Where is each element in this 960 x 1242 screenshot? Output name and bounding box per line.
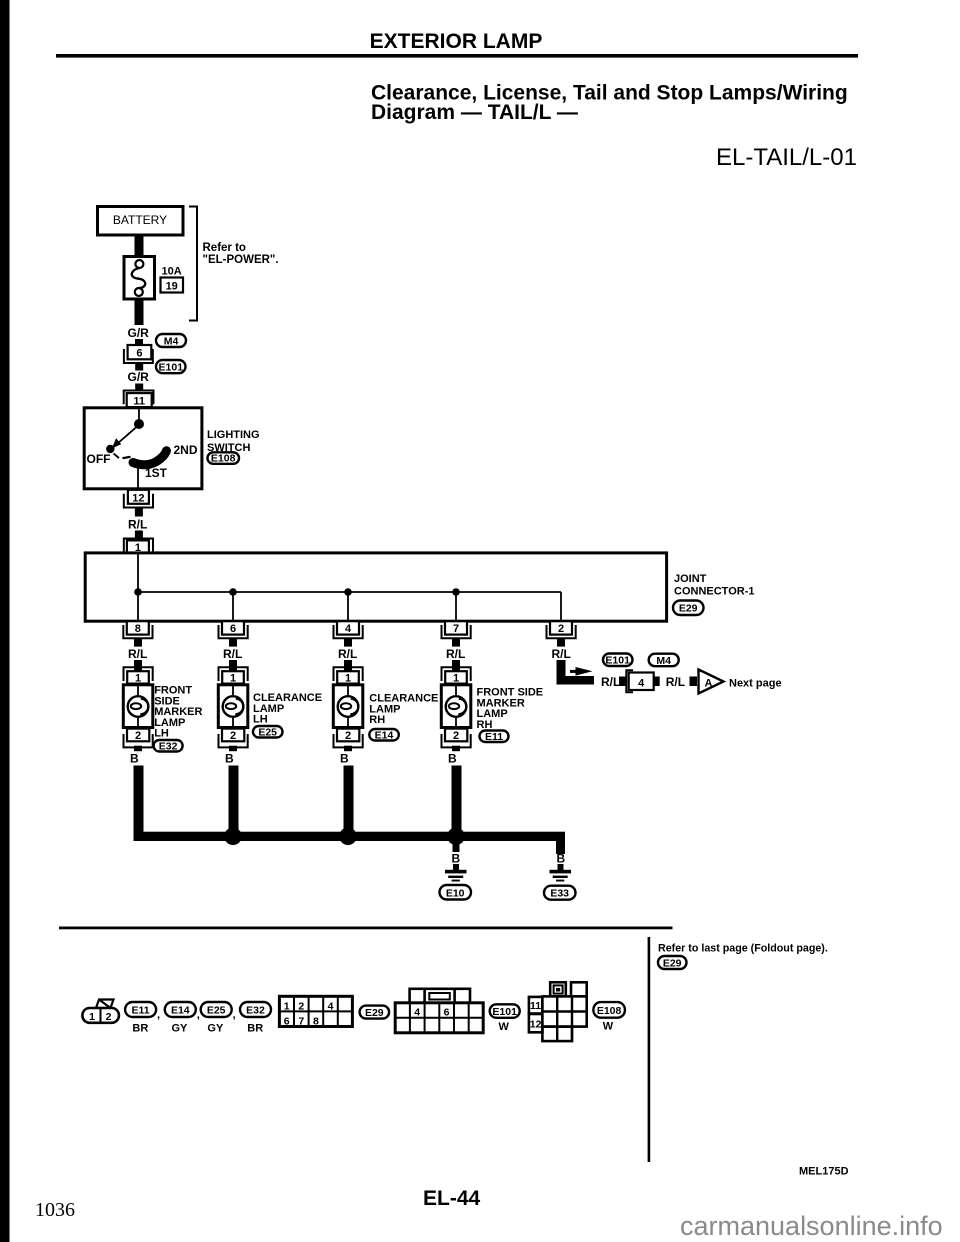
front side marker lamp RH connector 2: [442, 729, 471, 748]
svg-text:6: 6: [444, 1006, 450, 1018]
connector E32 oval: [154, 740, 183, 752]
svg-text:R/L: R/L: [552, 647, 571, 661]
svg-text:M4: M4: [656, 655, 671, 667]
label LIGHTING SWITCH: [207, 429, 260, 454]
svg-text:8: 8: [135, 623, 141, 635]
svg-text:LH: LH: [253, 714, 268, 726]
battery: [98, 207, 184, 236]
clearance lamp LH bulb: [218, 685, 248, 729]
figure code MEL175D: [799, 1166, 849, 1178]
switch common node: [134, 419, 144, 429]
inline connector 4: [619, 670, 660, 692]
refer-to bracket: [189, 207, 197, 321]
wire stub above lamp 3: [344, 660, 352, 671]
connector E108 oval: [208, 452, 240, 464]
ground wire lamp 2: [229, 766, 239, 836]
clearance lamp LH connector 1: [219, 667, 248, 684]
svg-text:E32: E32: [159, 740, 178, 752]
connector E14 oval: [369, 729, 399, 741]
svg-text:EXTERIOR LAMP: EXTERIOR LAMP: [370, 30, 543, 53]
connector E29 oval pinout: [360, 1006, 390, 1019]
wire stub: [135, 339, 143, 346]
svg-text:B: B: [225, 752, 234, 766]
svg-text:MEL175D: MEL175D: [799, 1166, 849, 1178]
svg-text:"EL-POWER".: "EL-POWER".: [203, 254, 279, 266]
svg-text:R/L: R/L: [223, 647, 242, 661]
svg-text:Next page: Next page: [729, 677, 782, 689]
wire label R/L: [128, 518, 147, 532]
front side marker lamp LH bulb: [123, 685, 153, 729]
label 2ND: [174, 443, 198, 457]
wire stub above 1: [135, 531, 143, 540]
svg-text:4: 4: [638, 677, 645, 689]
footer separator rule: [59, 927, 673, 930]
svg-text:E25: E25: [258, 726, 277, 738]
note refer to last page: [658, 943, 828, 955]
svg-text:11: 11: [133, 395, 145, 407]
joint connector E29 pinout grid: [279, 996, 352, 1027]
wire label B lamp 3: [340, 752, 349, 766]
note refer to EL-POWER: [203, 242, 279, 266]
svg-text:4: 4: [414, 1006, 420, 1018]
label OFF: [87, 452, 111, 466]
fuse value 10A: [162, 266, 182, 278]
wire stub above 11: [135, 384, 143, 392]
wire stub above lamp 4: [452, 660, 460, 671]
lighting switch box: [84, 408, 202, 489]
svg-text:E25: E25: [207, 1005, 226, 1017]
wire label R/L branch 3: [338, 647, 357, 661]
svg-text:E11: E11: [485, 731, 503, 743]
wire label G/R: [128, 326, 150, 340]
svg-text:6: 6: [230, 623, 236, 635]
connector 11 bracket: [124, 391, 154, 405]
svg-text:2: 2: [558, 623, 564, 635]
svg-text:E33: E33: [550, 888, 569, 900]
connector 6 bracket: [124, 349, 153, 363]
svg-text:7: 7: [453, 623, 459, 635]
scan page number 1036: [35, 1199, 75, 1221]
svg-text:LIGHTING: LIGHTING: [207, 429, 260, 441]
wire label R/L after elbow: [601, 675, 620, 689]
label FRONT SIDE MARKER LAMP RH: [477, 687, 544, 731]
label JOINT CONNECTOR-1: [674, 573, 754, 598]
svg-text:4: 4: [345, 623, 352, 635]
svg-text:W: W: [603, 1021, 614, 1033]
svg-text:4: 4: [328, 1000, 334, 1012]
svg-text:EL-TAIL/L-01: EL-TAIL/L-01: [716, 144, 857, 171]
clearance lamp RH connector 2: [334, 729, 363, 748]
svg-text:B: B: [452, 852, 461, 866]
diagram title: [371, 82, 848, 125]
connector E101 pinout grid: [395, 989, 483, 1033]
svg-text:6: 6: [284, 1016, 290, 1028]
svg-text:BATTERY: BATTERY: [113, 213, 167, 227]
svg-text:EL-44: EL-44: [423, 1187, 481, 1210]
svg-text:E29: E29: [663, 957, 682, 969]
header rule: [56, 54, 858, 58]
svg-text:2ND: 2ND: [174, 443, 198, 457]
switch wiper crescent: [123, 451, 167, 465]
connector 1 box: [127, 540, 149, 554]
connector E32 oval footer: [240, 1002, 271, 1035]
svg-text:1: 1: [453, 672, 459, 684]
svg-text:GY: GY: [207, 1023, 224, 1035]
label CLEARANCE LAMP LH: [253, 692, 322, 726]
svg-text:Refer to: Refer to: [203, 242, 246, 254]
ground drop E10: [445, 841, 467, 882]
switch arm arrow: [112, 427, 137, 449]
wire into switch: [138, 407, 140, 423]
svg-text:JOINT: JOINT: [674, 573, 707, 585]
connector 4 branch box: [334, 621, 363, 638]
wire stub below 8: [134, 639, 142, 647]
clearance lamp RH connector 1: [334, 667, 363, 684]
svg-text:G/R: G/R: [128, 370, 150, 384]
clearance lamp RH bulb: [333, 685, 363, 729]
svg-text:10A: 10A: [162, 266, 182, 278]
connector E29 oval: [673, 601, 704, 616]
joint connector internal bus: [138, 553, 561, 621]
wire stub below 2 branch: [557, 639, 565, 647]
wire label B lamp 2: [225, 752, 234, 766]
wire label G/R: [128, 370, 150, 384]
connector 8 box: [123, 621, 152, 638]
front side marker lamp LH connector 2: [124, 729, 153, 748]
svg-text:Diagram — TAIL/L —: Diagram — TAIL/L —: [371, 101, 578, 124]
header title EXTERIOR LAMP: [370, 30, 543, 53]
wire elbow to next page: [557, 660, 595, 685]
svg-text:E32: E32: [246, 1005, 265, 1017]
connector 6 box: [128, 345, 152, 360]
2-pin connector face icon: [82, 1000, 119, 1024]
svg-text:RH: RH: [477, 719, 493, 731]
svg-text:1: 1: [345, 672, 351, 684]
label CLEARANCE LAMP RH: [369, 693, 438, 727]
connector E14 oval footer: [165, 1002, 200, 1035]
svg-text:CONNECTOR-1: CONNECTOR-1: [674, 586, 754, 598]
svg-text:Refer to last page (Foldout pa: Refer to last page (Foldout page).: [658, 943, 828, 955]
ground drop E33: [550, 852, 572, 882]
wire label R/L branch 2: [223, 647, 242, 661]
svg-text:G/R: G/R: [128, 326, 150, 340]
svg-text:BR: BR: [247, 1023, 263, 1035]
svg-text:B: B: [557, 852, 566, 866]
svg-text:7: 7: [298, 1016, 304, 1028]
ground bus: [134, 832, 566, 854]
connector E29 oval footer: [658, 956, 687, 969]
watermark: [680, 1211, 943, 1241]
svg-text:E14: E14: [171, 1005, 190, 1017]
wire stub below lamp 2: [229, 746, 237, 752]
label FRONT SIDE MARKER LAMP LH: [154, 685, 202, 740]
svg-text:2: 2: [106, 1011, 112, 1023]
svg-text:B: B: [340, 752, 349, 766]
arrow mark: [570, 667, 593, 676]
ground wire lamp 1: [134, 766, 144, 841]
connector E101 oval next page: [603, 654, 633, 667]
wire label R/L to arrow: [666, 675, 685, 689]
connector E101 oval: [156, 360, 186, 374]
wire stub below 4 branch: [344, 639, 352, 647]
wire label R/L branch 1: [128, 647, 147, 661]
label 1ST: [145, 466, 168, 480]
wire label R/L branch 4: [446, 647, 465, 661]
front side marker lamp LH connector 1: [124, 667, 153, 684]
svg-text:8: 8: [313, 1016, 319, 1028]
svg-text:2: 2: [230, 730, 236, 742]
svg-text:,: ,: [157, 1009, 160, 1021]
svg-text:6: 6: [136, 348, 142, 360]
connector M4 oval: [156, 334, 186, 347]
svg-text:E101: E101: [492, 1006, 517, 1018]
wire label B lamp 1: [130, 752, 139, 766]
wire wiper to pin 12: [137, 466, 139, 489]
fuse number 19: [161, 278, 184, 293]
connector 11 box: [127, 393, 152, 407]
connector E11 oval footer: [125, 1002, 160, 1035]
svg-text:E11: E11: [132, 1005, 150, 1017]
page number EL-44: [423, 1187, 481, 1210]
wire battery to fuse: [135, 235, 144, 257]
svg-text:A: A: [705, 677, 713, 689]
wire label B lamp 4: [448, 752, 457, 766]
wire stub below 6: [135, 364, 143, 371]
connector E11 oval: [480, 731, 509, 743]
svg-text:1ST: 1ST: [145, 466, 168, 480]
connector 12 bracket: [124, 494, 153, 508]
svg-text:E29: E29: [679, 603, 698, 615]
ground E33 oval: [544, 886, 576, 900]
wire label R/L branch 5: [552, 647, 571, 661]
connector M4 oval next page: [649, 654, 679, 667]
svg-text:1: 1: [230, 672, 236, 684]
connector 12 box: [128, 490, 149, 505]
next page arrow A: [690, 670, 724, 694]
svg-text:B: B: [448, 752, 457, 766]
wire stub above lamp 2: [229, 660, 237, 671]
wire fuse down: [135, 299, 144, 325]
svg-text:R/L: R/L: [128, 647, 147, 661]
fuse 10A: [124, 257, 155, 300]
svg-text:R/L: R/L: [338, 647, 357, 661]
svg-text:R/L: R/L: [446, 647, 465, 661]
svg-text:E10: E10: [446, 887, 465, 899]
wire stub below lamp 3: [344, 746, 352, 752]
wire stub below 7 branch: [452, 639, 460, 647]
connector E101 oval pinout: [490, 1004, 520, 1033]
connector 7 branch box: [442, 621, 471, 638]
svg-text:E14: E14: [375, 729, 394, 741]
svg-text:E101: E101: [159, 362, 184, 374]
wire stub below 6 branch: [229, 639, 237, 647]
svg-text:LH: LH: [154, 728, 169, 740]
svg-text:2: 2: [298, 1000, 304, 1012]
svg-text:GY: GY: [172, 1023, 189, 1035]
joint connector box: [85, 553, 666, 621]
svg-text:12: 12: [132, 492, 144, 504]
svg-text:E108: E108: [597, 1005, 622, 1017]
wire stub below lamp 4: [452, 746, 460, 752]
svg-text:1: 1: [89, 1011, 95, 1023]
connector E108 pinout grid: [529, 982, 587, 1041]
svg-text:1: 1: [284, 1000, 290, 1012]
ground bus junction dots: [224, 828, 465, 846]
svg-text:19: 19: [166, 281, 178, 293]
ground wire lamp 4: [452, 766, 462, 836]
svg-text:2: 2: [135, 730, 141, 742]
svg-text:R/L: R/L: [601, 675, 620, 689]
wire stub above lamp 1: [134, 660, 142, 671]
svg-text:B: B: [130, 752, 139, 766]
svg-text:R/L: R/L: [666, 675, 685, 689]
wire stub below 12: [135, 508, 143, 517]
svg-text:E101: E101: [605, 655, 630, 667]
footer vertical rule: [648, 937, 651, 1162]
svg-text:1: 1: [135, 672, 141, 684]
svg-text:2: 2: [453, 730, 459, 742]
connector 1 bracket: [124, 539, 153, 552]
front side marker lamp RH bulb: [441, 685, 471, 729]
svg-text:,: ,: [197, 1009, 200, 1021]
connector E108 oval pinout: [593, 1002, 625, 1033]
label Next page: [729, 677, 782, 689]
svg-text:BR: BR: [132, 1023, 148, 1035]
svg-text:carmanualsonline.info: carmanualsonline.info: [680, 1211, 943, 1241]
svg-text:12: 12: [530, 1019, 542, 1031]
connector E25 oval: [253, 726, 283, 738]
svg-text:,: ,: [233, 1009, 236, 1021]
page code EL-TAIL/L-01: [716, 144, 857, 171]
ground wire lamp 3: [344, 766, 354, 836]
connector 6 branch box: [219, 621, 248, 638]
svg-text:11: 11: [530, 1000, 541, 1012]
svg-text:W: W: [499, 1021, 510, 1033]
ground E10 oval: [440, 885, 472, 900]
wire stub below lamp 1: [134, 746, 142, 752]
connector E25 oval footer: [201, 1002, 236, 1035]
svg-text:1036: 1036: [35, 1199, 75, 1221]
svg-text:RH: RH: [369, 714, 385, 726]
clearance lamp LH connector 2: [219, 729, 248, 748]
svg-text:OFF: OFF: [87, 452, 111, 466]
front side marker lamp RH connector 1: [442, 667, 471, 684]
switch OFF contact: [106, 445, 119, 458]
svg-text:M4: M4: [164, 335, 179, 347]
svg-text:R/L: R/L: [128, 518, 147, 532]
svg-text:E29: E29: [365, 1007, 384, 1019]
svg-text:E108: E108: [211, 453, 236, 465]
junction dots: [134, 588, 460, 596]
svg-text:2: 2: [345, 730, 351, 742]
connector 2 branch box: [547, 621, 576, 638]
